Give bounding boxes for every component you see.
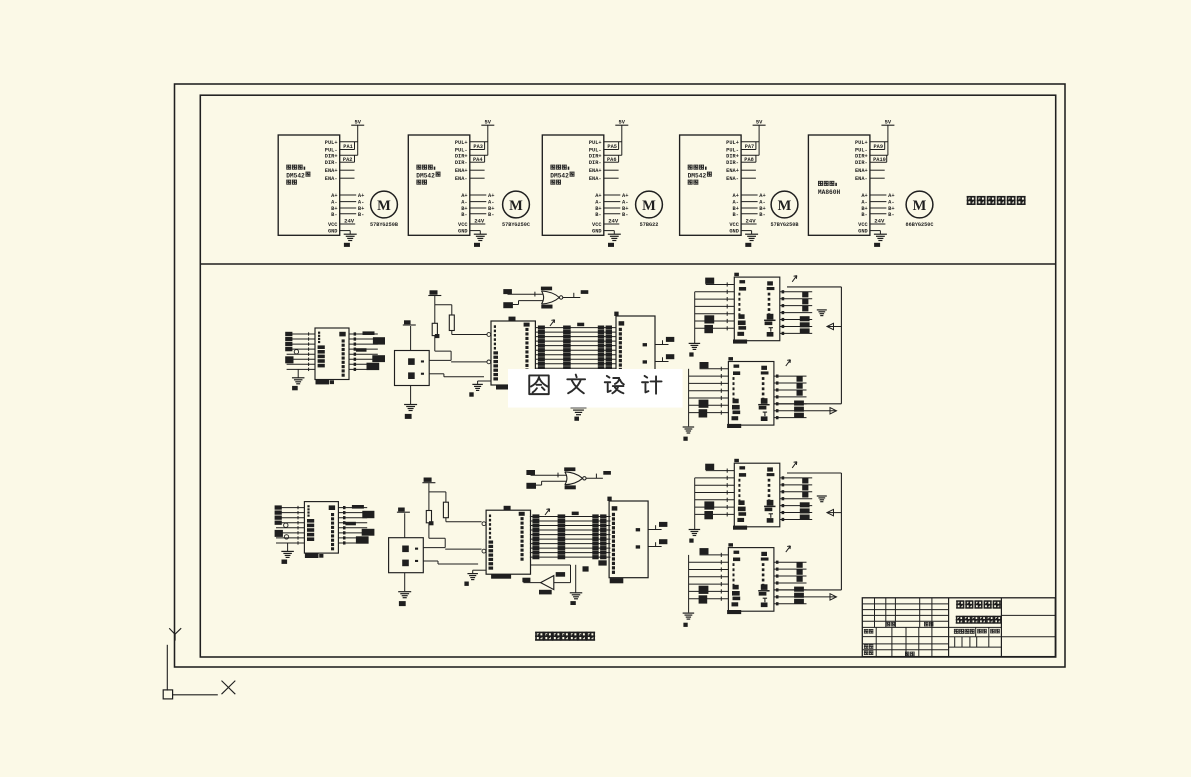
wire PUL- <box>470 149 485 151</box>
gate output wire <box>563 293 581 298</box>
wire to ground <box>297 369 299 377</box>
wire to ground <box>478 381 491 384</box>
svg-text:A-: A- <box>595 200 601 206</box>
svg-text:DIR+: DIR+ <box>325 153 338 159</box>
svg-text:ENA+: ENA+ <box>726 168 739 174</box>
IC input bubble 1 <box>482 522 486 526</box>
svg-text:DIR-: DIR- <box>726 160 739 166</box>
optocoupler U23 <box>727 543 774 614</box>
wire ENA+ <box>604 169 619 171</box>
wire B+ <box>604 206 629 212</box>
driver U4 name text <box>688 165 712 185</box>
IC input bubble 2 <box>487 360 491 364</box>
ground <box>281 551 294 564</box>
svg-text:DIR-: DIR- <box>455 160 468 166</box>
wire GND <box>470 231 481 235</box>
wire crystal out 1 <box>423 538 445 547</box>
wire DIR+ <box>470 154 488 156</box>
wire PUL+ <box>470 141 488 143</box>
net labels right of left IC <box>345 505 374 544</box>
svg-text:DIR-: DIR- <box>855 160 868 166</box>
oscillator module X1 <box>389 538 424 573</box>
svg-text:B-: B- <box>861 212 867 218</box>
axis X glyph <box>222 681 236 695</box>
net label PA7 <box>745 142 756 150</box>
power 5V (U3) <box>615 120 628 156</box>
ground (U11) <box>464 574 478 586</box>
svg-text:DM542: DM542 <box>286 172 305 179</box>
wire bus to connector <box>530 517 611 558</box>
title block grid <box>862 598 1055 657</box>
harness labels <box>699 362 709 418</box>
feedback wire loop <box>774 473 841 590</box>
wires into U22 <box>695 469 735 530</box>
svg-text:VCC: VCC <box>592 222 602 228</box>
ground <box>683 427 695 441</box>
driver U1 pin labels <box>325 140 339 235</box>
wire bundle into left IC <box>287 332 315 371</box>
wire GND <box>604 231 615 235</box>
svg-text:M: M <box>913 198 927 214</box>
driver box U5 <box>808 135 870 235</box>
power arrow <box>792 462 797 468</box>
gate label blobs <box>564 467 576 489</box>
motor M5 <box>905 191 933 228</box>
svg-text:5V: 5V <box>756 120 763 126</box>
svg-text:A+: A+ <box>759 193 765 199</box>
junction bubble <box>284 535 288 539</box>
gate input wires <box>531 473 567 486</box>
wire below R1 <box>428 523 430 539</box>
svg-text:57BYG250B: 57BYG250B <box>770 222 798 228</box>
wire R1-R2 top <box>435 305 452 315</box>
power VCC (X1) <box>403 320 416 350</box>
axis origin square <box>163 690 172 699</box>
svg-text:VCC: VCC <box>729 222 739 228</box>
wire A+ <box>470 193 495 199</box>
svg-text:B-: B- <box>331 212 337 218</box>
svg-text:M: M <box>642 198 656 214</box>
net labels on bus <box>532 512 606 560</box>
svg-text:VCC: VCC <box>858 222 868 228</box>
wire PUL+ <box>340 141 358 143</box>
net label 24V <box>474 218 485 225</box>
wire below R2 <box>446 518 482 522</box>
ground (U15) <box>570 593 583 605</box>
net labels <box>794 376 804 418</box>
wires out of U23 <box>774 561 806 606</box>
wire PUL- <box>741 149 756 151</box>
wire ENA- <box>340 177 355 179</box>
power arrow <box>786 546 791 552</box>
driver U3 name text <box>550 165 574 185</box>
svg-text:GND: GND <box>592 229 602 235</box>
net label PA3 <box>473 142 484 150</box>
wire A+ <box>870 193 895 199</box>
svg-text:A-: A- <box>331 200 337 206</box>
axis X line <box>173 694 218 696</box>
wires out of U22 <box>780 476 812 521</box>
svg-text:ENA+: ENA+ <box>855 168 868 174</box>
resistor R2 <box>449 315 454 331</box>
net label blobs <box>583 560 607 571</box>
wire DIR- <box>604 161 619 163</box>
power arrow (U11) <box>550 320 555 326</box>
ground flag <box>817 310 827 316</box>
ground (X1) <box>398 592 411 606</box>
wires into U20 <box>695 282 735 343</box>
wire B- <box>604 212 629 218</box>
power VCC (R1) <box>428 290 441 323</box>
net label PA9 <box>874 142 885 150</box>
wires out of U20 <box>780 290 812 335</box>
driver U1 name text <box>286 165 310 185</box>
title text: motor and encoder drive circuit diagram <box>956 601 1002 624</box>
svg-text:A+: A+ <box>733 193 739 199</box>
svg-text:DM542: DM542 <box>550 172 569 179</box>
wire PUL+ <box>870 141 888 143</box>
power arrow <box>786 360 791 366</box>
svg-text:5V: 5V <box>619 120 626 126</box>
svg-text:A+: A+ <box>861 193 867 199</box>
wire B+ <box>741 206 766 212</box>
net label 24V <box>874 218 885 225</box>
wire GND <box>340 231 351 235</box>
svg-text:ENA+: ENA+ <box>325 168 338 174</box>
net label PA1 <box>343 142 354 150</box>
wire VCC <box>340 223 356 225</box>
svg-text:DIR+: DIR+ <box>589 153 602 159</box>
wire crystal to IC <box>451 361 487 363</box>
wire to ground <box>404 573 406 592</box>
wire A+ <box>741 193 766 199</box>
net labels <box>800 478 810 520</box>
svg-text:57BG22: 57BG22 <box>640 222 659 228</box>
power arrow (U14) <box>545 509 550 515</box>
svg-text:DM542: DM542 <box>688 172 707 179</box>
wire B+ <box>870 206 895 212</box>
svg-text:B-: B- <box>622 212 628 218</box>
ground below bus <box>571 408 587 421</box>
svg-text:86BYG250C: 86BYG250C <box>905 222 933 228</box>
wire crystal out 2 <box>423 561 478 564</box>
right connector J1 <box>607 497 648 584</box>
wire B+ <box>470 206 495 212</box>
wire VCC <box>604 223 620 225</box>
ground <box>683 613 695 627</box>
wire inverter output <box>522 578 540 583</box>
svg-text:5V: 5V <box>485 120 492 126</box>
wires out of left IC <box>349 332 378 371</box>
svg-text:PUL+: PUL+ <box>726 140 739 146</box>
driver box U4 <box>680 135 742 235</box>
gate output wire <box>586 474 603 479</box>
svg-text:M: M <box>778 198 792 214</box>
connector out wire 2 <box>655 357 669 361</box>
svg-text:57BYG250C: 57BYG250C <box>502 222 530 228</box>
wire PUL- <box>870 149 885 151</box>
svg-text:A+: A+ <box>622 193 628 199</box>
svg-text:M: M <box>377 198 391 214</box>
svg-text:GND: GND <box>458 229 468 235</box>
gate label blobs <box>541 287 553 309</box>
net label 24V <box>746 218 757 225</box>
wire B- <box>870 212 895 218</box>
svg-text:PUL+: PUL+ <box>855 140 868 146</box>
net label 24V <box>608 218 619 225</box>
optocoupler U22 <box>733 459 780 530</box>
svg-text:A-: A- <box>358 200 364 206</box>
power 5V (U1) <box>351 120 364 156</box>
wire DIR+ <box>604 154 622 156</box>
connector out labels <box>666 337 674 359</box>
svg-text:VCC: VCC <box>458 222 468 228</box>
IC input bubble 1 <box>487 333 491 337</box>
power VCC (R1) <box>422 478 435 511</box>
wire below R2 <box>452 331 488 335</box>
svg-text:B-: B- <box>488 212 494 218</box>
svg-text:MA860H: MA860H <box>818 189 841 196</box>
svg-text:ENA-: ENA- <box>589 176 602 182</box>
connector out wire 2 <box>648 542 662 546</box>
svg-text:DIR+: DIR+ <box>855 153 868 159</box>
power VCC (X1) <box>397 508 410 538</box>
wire A- <box>870 200 895 206</box>
wire A- <box>340 200 365 206</box>
connector out wire 1 <box>655 340 669 344</box>
svg-text:B-: B- <box>461 212 467 218</box>
wire to ground <box>287 543 289 551</box>
svg-text:B-: B- <box>888 212 894 218</box>
wire A+ <box>340 193 365 199</box>
resistor R2 <box>443 502 448 518</box>
wire PUL- <box>604 149 619 151</box>
svg-text:57BYG250B: 57BYG250B <box>370 222 398 228</box>
label: encoder interface circuit <box>535 632 595 641</box>
wire DIR- <box>741 161 756 163</box>
wire with arrow <box>827 509 841 515</box>
svg-text:A+: A+ <box>461 193 467 199</box>
wire DIR- <box>340 161 355 163</box>
ground (U4) <box>745 234 758 247</box>
right connector J1 <box>614 312 655 385</box>
wire below R1 <box>434 336 436 352</box>
wire ENA- <box>741 177 756 179</box>
svg-text:DIR-: DIR- <box>325 160 338 166</box>
net labels <box>794 562 804 604</box>
driver U2 pin labels <box>455 140 469 235</box>
driver U4 pin labels <box>726 140 740 235</box>
wire with arrow <box>807 594 837 600</box>
svg-text:DIR-: DIR- <box>589 160 602 166</box>
wire DIR- <box>470 161 485 163</box>
svg-text:A+: A+ <box>888 193 894 199</box>
wire R1-R2 top <box>429 492 446 502</box>
ground (U2) <box>474 234 487 247</box>
svg-text:DM542: DM542 <box>416 172 435 179</box>
wire A- <box>470 200 495 206</box>
driver U5 pin labels <box>855 140 869 235</box>
wire VCC <box>470 223 486 225</box>
wire to ground <box>410 386 412 405</box>
wire ENA+ <box>340 169 355 171</box>
middle IC U11 <box>486 506 530 579</box>
wire ENA- <box>604 177 619 179</box>
NOR gate U12 <box>565 472 586 485</box>
svg-text:A-: A- <box>861 200 867 206</box>
svg-text:ENA+: ENA+ <box>455 168 468 174</box>
junction blob <box>429 521 434 525</box>
inverter U15 <box>539 572 565 594</box>
svg-text:B-: B- <box>358 212 364 218</box>
wire DIR+ <box>340 154 358 156</box>
svg-text:PUL+: PUL+ <box>589 140 602 146</box>
wire VCC <box>870 223 886 225</box>
junction bubble <box>284 523 288 527</box>
svg-text:GND: GND <box>729 229 739 235</box>
ground <box>689 343 701 356</box>
driver U2 name text <box>416 165 440 185</box>
svg-text:B-: B- <box>759 212 765 218</box>
svg-text:A+: A+ <box>331 193 337 199</box>
wire to ground <box>575 565 577 593</box>
wire B- <box>741 212 766 218</box>
ground (U1) <box>344 234 357 247</box>
axis stem <box>166 645 168 691</box>
ground (U11) <box>469 384 483 396</box>
resistor R1 <box>426 511 431 523</box>
connector out wire 1 <box>648 525 662 529</box>
gate output label <box>581 290 589 294</box>
wire crystal out 2 <box>429 374 484 377</box>
wire bus to connector <box>535 328 616 369</box>
optocoupler U20 <box>733 273 780 344</box>
wire B+ <box>340 206 365 212</box>
wire DIR- <box>870 161 887 163</box>
wire with arrow <box>807 408 837 414</box>
left IC U10 <box>304 502 338 558</box>
power 5V (U2) <box>481 120 494 156</box>
power arrow <box>792 276 797 282</box>
net labels right of left IC <box>356 331 385 370</box>
wire with arrow <box>827 323 841 329</box>
ground (U3) <box>608 234 621 247</box>
wire GND <box>870 231 881 235</box>
wire PUL- <box>340 149 355 151</box>
resistor R1 <box>432 323 437 335</box>
inner drawing frame <box>200 95 1055 657</box>
net label PA10 <box>873 155 887 163</box>
feedback wire loop <box>774 287 841 404</box>
wire ENA+ <box>870 169 885 171</box>
wire B- <box>340 212 365 218</box>
svg-text:PUL+: PUL+ <box>325 140 338 146</box>
driver box U1 <box>278 135 340 235</box>
junction bubble <box>294 350 298 354</box>
net label PA4 <box>473 155 485 163</box>
svg-text:B-: B- <box>595 212 601 218</box>
svg-text:ENA-: ENA- <box>726 176 739 182</box>
svg-text:A+: A+ <box>488 193 494 199</box>
svg-text:B-: B- <box>733 212 739 218</box>
motor M3 <box>636 191 663 228</box>
motor M1 <box>370 191 398 228</box>
net labels <box>800 292 810 334</box>
svg-text:5V: 5V <box>354 120 361 126</box>
wire ENA- <box>470 177 485 179</box>
power 5V (U4) <box>753 120 766 156</box>
wires into U21 <box>689 367 729 427</box>
wire B- <box>470 212 495 218</box>
label: motor drive circuit <box>967 196 1026 205</box>
net labels on bus <box>538 323 612 371</box>
wire A- <box>604 200 629 206</box>
NOR gate U12 <box>542 291 563 304</box>
svg-text:A-: A- <box>733 200 739 206</box>
net label PA8 <box>744 155 756 163</box>
wire VCC <box>741 223 757 225</box>
net label PA6 <box>607 155 619 163</box>
svg-text:A+: A+ <box>358 193 364 199</box>
net label PA5 <box>607 142 618 150</box>
svg-text:A-: A- <box>622 200 628 206</box>
axis Y arrow on left border <box>169 628 181 640</box>
outer drawing frame <box>175 84 1066 667</box>
oscillator module X1 <box>395 351 430 386</box>
motor M4 <box>770 191 798 228</box>
wire DIR+ <box>870 154 888 156</box>
svg-text:DIR+: DIR+ <box>726 153 739 159</box>
driver box U3 <box>542 135 604 235</box>
IC input bubble 2 <box>482 549 486 553</box>
svg-text:DIR+: DIR+ <box>455 153 468 159</box>
ground flag <box>817 496 827 502</box>
ground (X1) <box>404 405 417 419</box>
wire A+ <box>604 193 629 199</box>
wire inverter input <box>530 565 570 583</box>
wire ENA- <box>870 177 885 179</box>
svg-text:ENA-: ENA- <box>325 176 338 182</box>
wire A- <box>741 200 766 206</box>
wire ENA+ <box>741 169 756 171</box>
title block small texts <box>864 622 1000 656</box>
ground <box>689 530 701 543</box>
svg-text:ENA-: ENA- <box>455 176 468 182</box>
optocoupler U21 <box>727 357 774 428</box>
driver box U2 <box>408 135 470 235</box>
left IC U10 <box>315 328 349 384</box>
harness labels <box>699 548 709 604</box>
wire GND <box>741 231 752 235</box>
middle IC U11 <box>491 317 535 390</box>
ground <box>292 378 305 391</box>
wires out of left IC <box>338 506 367 545</box>
wire PUL+ <box>741 141 759 143</box>
gate input labels <box>526 470 536 489</box>
ground (U5) <box>874 234 887 247</box>
svg-text:ENA+: ENA+ <box>589 168 602 174</box>
connector out labels <box>659 522 667 544</box>
svg-text:A-: A- <box>888 200 894 206</box>
wire PUL+ <box>604 141 622 143</box>
svg-text:A-: A- <box>488 200 494 206</box>
gate input labels <box>503 289 513 308</box>
svg-text:VCC: VCC <box>328 222 338 228</box>
gate output label <box>603 471 611 475</box>
power 5V (U5) <box>881 120 894 156</box>
wires out of U21 <box>774 375 806 420</box>
wires into U23 <box>689 553 729 613</box>
